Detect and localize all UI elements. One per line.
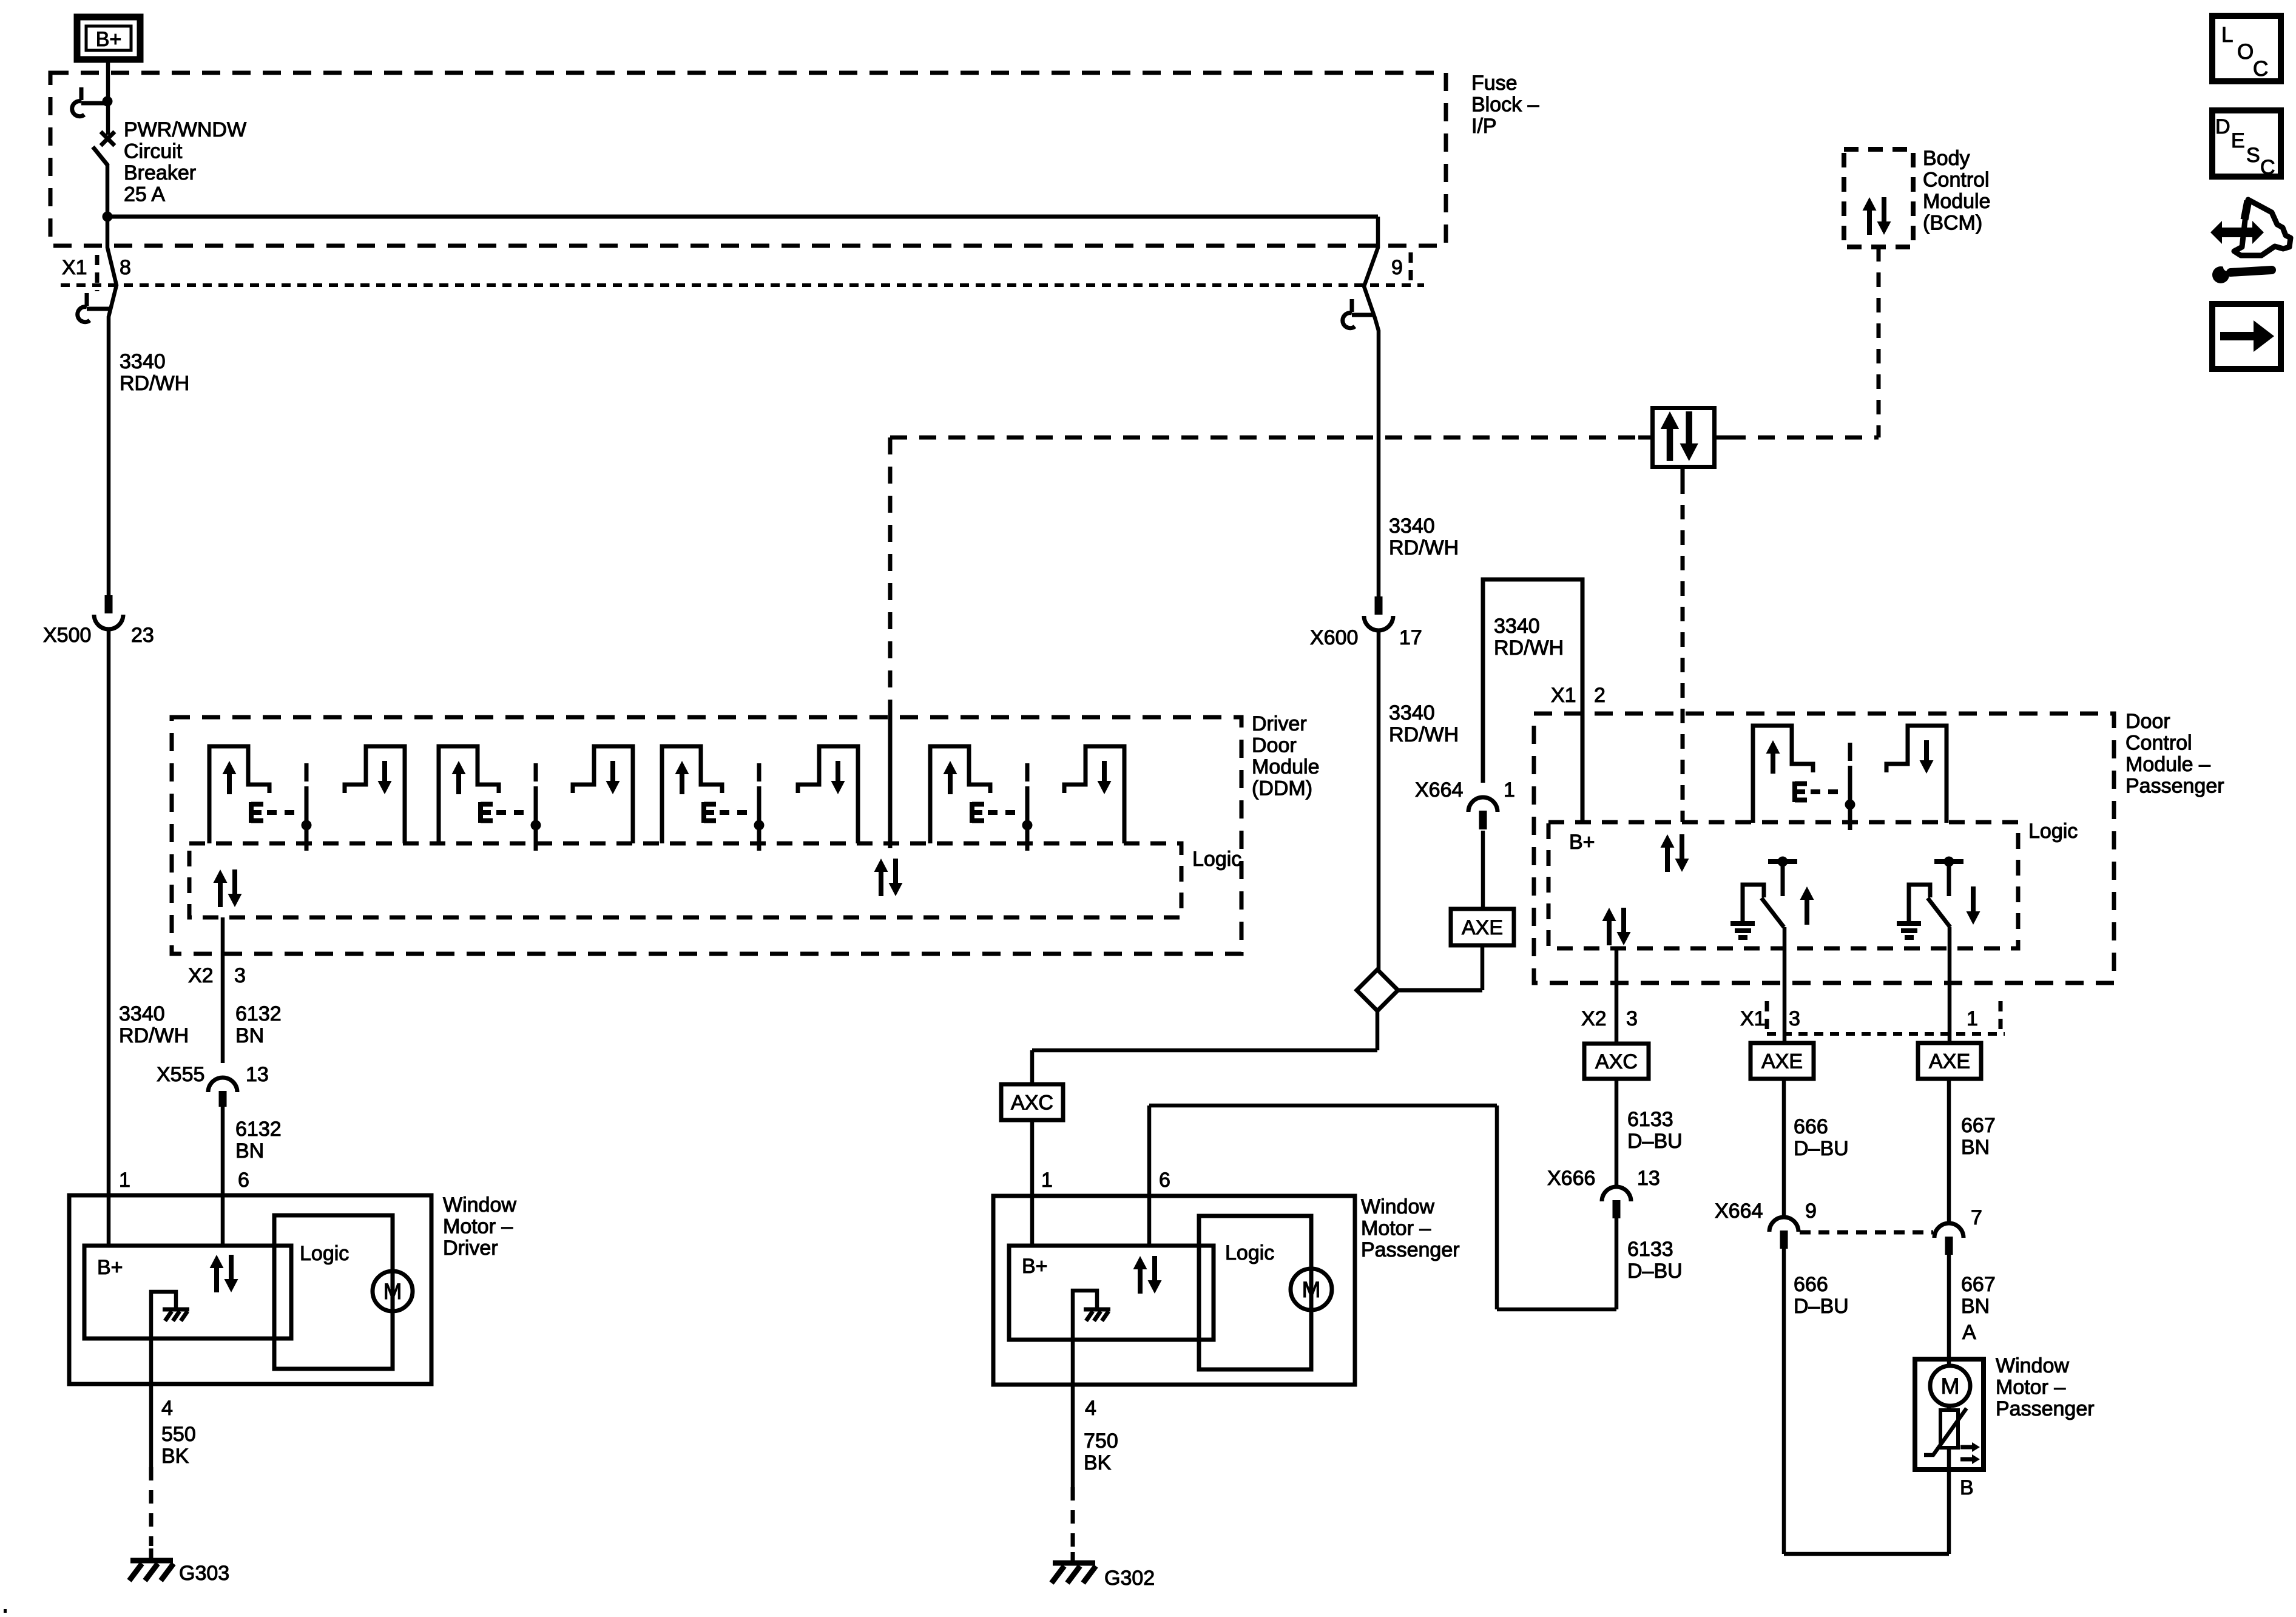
svg-text:Door: Door [1252,734,1297,757]
svg-text:AXE: AXE [1761,1050,1803,1073]
svg-text:X2: X2 [1581,1007,1607,1030]
svg-text:550: 550 [161,1423,196,1446]
svg-text:Breaker: Breaker [124,161,196,184]
svg-text:BN: BN [235,1139,264,1163]
svg-text:Window: Window [443,1193,516,1217]
svg-text:3340: 3340 [1494,615,1540,638]
svg-text:X500: X500 [43,624,91,647]
svg-text:17: 17 [1399,626,1422,649]
svg-text:4: 4 [161,1397,173,1420]
svg-text:BN: BN [235,1024,264,1047]
svg-text:Motor –: Motor – [1361,1217,1431,1240]
svg-text:D–BU: D–BU [1627,1260,1683,1283]
svg-text:E: E [2231,129,2245,152]
svg-text:6: 6 [238,1169,249,1192]
svg-text:M: M [1302,1277,1321,1302]
svg-text:(BCM): (BCM) [1923,212,1982,235]
svg-text:C: C [2260,156,2275,179]
svg-text:X2: X2 [188,964,214,987]
svg-text:AXE: AXE [1462,916,1503,939]
svg-text:AXC: AXC [1595,1050,1638,1073]
svg-text:X555: X555 [157,1063,204,1086]
svg-text:3340: 3340 [120,350,166,373]
svg-text:Module –: Module – [2125,753,2210,776]
svg-text:PWR/WNDW: PWR/WNDW [124,118,246,141]
svg-text:750: 750 [1084,1430,1118,1453]
svg-text:X600: X600 [1310,626,1358,649]
svg-text:D–BU: D–BU [1794,1295,1849,1318]
svg-text:Control: Control [2125,732,2192,755]
svg-text:X664: X664 [1715,1200,1763,1223]
svg-text:1: 1 [1504,778,1515,802]
svg-text:23: 23 [131,624,154,647]
svg-text:RD/WH: RD/WH [119,1024,189,1047]
svg-text:AXE: AXE [1929,1050,1970,1073]
svg-text:Passenger: Passenger [2125,775,2224,798]
svg-text:667: 667 [1961,1114,1996,1137]
svg-text:Motor –: Motor – [443,1215,513,1238]
svg-text:B+: B+ [1022,1255,1048,1278]
svg-text:4: 4 [1085,1397,1096,1420]
svg-text:B+: B+ [1569,831,1595,854]
svg-text:666: 666 [1794,1273,1828,1296]
svg-text:Window: Window [1361,1195,1434,1218]
svg-text:6133: 6133 [1627,1108,1673,1131]
svg-text:AXC: AXC [1011,1092,1053,1115]
svg-text:Block –: Block – [1471,93,1539,116]
svg-text:Driver: Driver [1252,712,1307,735]
svg-text:Control: Control [1923,169,1990,192]
svg-text:3340: 3340 [1389,701,1435,724]
svg-text:Passenger: Passenger [1996,1397,2095,1420]
svg-text:3: 3 [234,964,246,987]
svg-text:1: 1 [119,1169,130,1192]
svg-text:13: 13 [246,1063,269,1086]
svg-text:M: M [1941,1374,1960,1399]
svg-text:RD/WH: RD/WH [120,372,189,395]
svg-text:Logic: Logic [1192,848,1241,871]
svg-text:7: 7 [1971,1206,1982,1229]
svg-text:O: O [2237,40,2254,64]
svg-text:9: 9 [1391,256,1403,279]
svg-text:3340: 3340 [1389,515,1435,538]
svg-text:Logic: Logic [300,1242,349,1265]
svg-text:1: 1 [1041,1169,1053,1192]
svg-text:3: 3 [1626,1007,1638,1030]
svg-text:B+: B+ [97,1256,123,1279]
svg-text:BK: BK [161,1445,189,1468]
svg-text:Logic: Logic [2028,820,2078,843]
svg-text:L: L [2221,23,2233,47]
svg-text:Driver: Driver [443,1237,498,1260]
svg-text:BN: BN [1961,1295,1990,1318]
svg-text:BK: BK [1084,1451,1112,1474]
svg-text:G302: G302 [1104,1567,1155,1590]
svg-text:D–BU: D–BU [1794,1137,1849,1160]
svg-text:25 A: 25 A [124,183,165,206]
svg-text:Door: Door [2125,710,2170,733]
svg-text:6132: 6132 [235,1118,282,1141]
svg-text:3: 3 [1789,1007,1800,1030]
svg-text:667: 667 [1961,1273,1996,1296]
svg-text:6132: 6132 [235,1002,282,1025]
svg-text:B: B [1960,1476,1974,1499]
svg-text:D–BU: D–BU [1627,1130,1683,1153]
svg-text:B+: B+ [96,28,122,51]
svg-text:Circuit: Circuit [124,140,183,163]
svg-text:13: 13 [1637,1167,1660,1190]
svg-text:X1: X1 [1551,684,1576,707]
svg-text:Body: Body [1923,147,1970,170]
svg-text:D: D [2215,115,2230,138]
svg-text:(DDM): (DDM) [1252,777,1312,800]
svg-text:BN: BN [1961,1136,1990,1159]
svg-text:X1: X1 [62,256,87,279]
svg-text:Window: Window [1996,1354,2069,1377]
svg-text:Logic: Logic [1225,1241,1274,1264]
svg-text:X1: X1 [1740,1007,1766,1030]
svg-text:6: 6 [1159,1169,1170,1192]
svg-text:Motor –: Motor – [1996,1376,2065,1399]
svg-text:I/P: I/P [1471,115,1497,138]
svg-text:C: C [2253,57,2268,81]
svg-text:Module: Module [1252,755,1320,778]
svg-text:A: A [1962,1321,1976,1344]
svg-text:RD/WH: RD/WH [1389,723,1459,746]
svg-text:Fuse: Fuse [1471,72,1518,95]
svg-text:RD/WH: RD/WH [1389,536,1459,559]
svg-text:Module: Module [1923,190,1991,213]
svg-text:8: 8 [120,256,131,279]
svg-text:Passenger: Passenger [1361,1238,1460,1261]
svg-text:X664: X664 [1415,778,1463,802]
svg-text:1: 1 [1967,1007,1978,1030]
svg-text:M: M [383,1279,402,1304]
svg-text:9: 9 [1805,1200,1817,1223]
svg-text:X666: X666 [1547,1167,1595,1190]
svg-text:S: S [2246,144,2260,167]
svg-text:G303: G303 [179,1562,229,1585]
svg-text:6133: 6133 [1627,1238,1673,1261]
svg-text:666: 666 [1794,1115,1828,1138]
svg-text:RD/WH: RD/WH [1494,636,1564,660]
svg-text:3340: 3340 [119,1002,165,1025]
svg-text:2: 2 [1594,684,1606,707]
